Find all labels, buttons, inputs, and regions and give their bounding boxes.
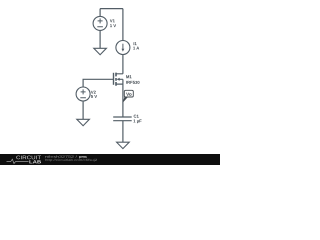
logo waveform squiggle — [7, 159, 29, 163]
transistor M1 body arrow — [117, 78, 120, 81]
ground below C1 — [117, 142, 130, 148]
capacitor C1 — [113, 117, 132, 121]
wire V2 to M1 gate — [83, 79, 113, 87]
ground below V2 — [77, 119, 90, 125]
footer watermark bar — [0, 154, 220, 165]
wire top rail V1 to I1 — [100, 9, 123, 41]
voltage source V1 — [93, 16, 107, 30]
transistor M1 drain, body and source stubs — [116, 74, 123, 84]
value IRF530 — [126, 81, 139, 84]
logo text LAB — [29, 160, 41, 163]
current source I1 — [116, 41, 130, 55]
label C1 — [134, 115, 139, 118]
voltage source V2 — [76, 87, 90, 101]
wire C1 to ground — [122, 121, 124, 143]
wire I1 to M1 drain — [122, 55, 124, 74]
wire V2 to ground — [82, 101, 84, 119]
value 5 V — [91, 95, 97, 98]
ground below V1 — [94, 48, 107, 54]
label V1 — [110, 19, 115, 22]
value 1 uF — [133, 120, 141, 124]
logo text CIRCUIT — [16, 156, 41, 160]
wire M1 source down to output node — [122, 79, 124, 117]
wire V1 to ground — [99, 30, 101, 48]
footer url — [45, 159, 97, 162]
label V2 — [91, 91, 96, 94]
node flag Vo pointer — [123, 96, 128, 103]
transistor M1 gate bar — [113, 73, 115, 85]
footer user text — [45, 155, 77, 157]
value 1 A — [133, 47, 139, 50]
node flag Vo box — [124, 90, 133, 97]
value 1 V — [110, 24, 116, 27]
footer circuit name — [79, 156, 87, 158]
label M1 — [126, 75, 131, 78]
label I1 — [134, 42, 137, 45]
transistor M1 channel segments — [115, 73, 117, 86]
label Vo — [126, 93, 131, 96]
